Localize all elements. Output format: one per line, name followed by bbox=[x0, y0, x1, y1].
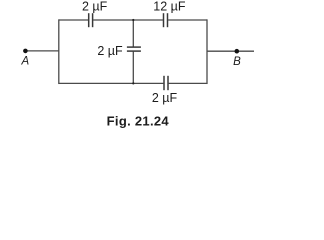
svg-text:B: B bbox=[233, 56, 241, 68]
svg-text:12 µF: 12 µF bbox=[153, 0, 186, 13]
svg-text:Fig. 21.24: Fig. 21.24 bbox=[107, 113, 170, 128]
svg-text:2 µF: 2 µF bbox=[82, 0, 108, 13]
svg-text:2 µF: 2 µF bbox=[152, 91, 178, 105]
svg-text:A: A bbox=[20, 55, 29, 67]
svg-text:2 µF: 2 µF bbox=[97, 44, 123, 58]
